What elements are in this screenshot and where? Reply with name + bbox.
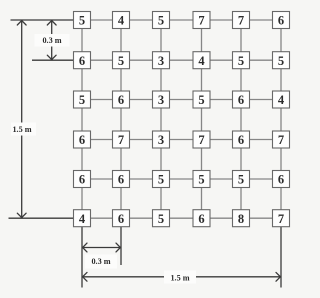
- node r5c2 value 6: [113, 171, 130, 188]
- node r3c4 value 5: [193, 91, 210, 108]
- node r2c4 value 4: [193, 52, 210, 69]
- dimension arrow 1.5 m horizontal bottom: [83, 272, 281, 281]
- wire row 4: [82, 139, 281, 141]
- node r4c4 value 7: [193, 131, 210, 148]
- extension line row 2 left: [32, 59, 82, 61]
- label 0.3 m bottom: [85, 255, 117, 269]
- svg-text:7: 7: [238, 14, 244, 28]
- wire row 6: [82, 217, 281, 219]
- svg-text:5: 5: [158, 14, 164, 28]
- node r1c3 value 5: [153, 12, 170, 29]
- label 1.5 m bottom: [164, 271, 196, 284]
- svg-text:6: 6: [238, 133, 244, 147]
- node r4c3 value 3: [153, 131, 170, 148]
- node r5c6 value 6: [273, 171, 290, 188]
- dimension arrow 1.5 m vertical left: [17, 21, 26, 218]
- wire column 4: [201, 20, 203, 218]
- svg-text:5: 5: [238, 173, 244, 187]
- node r6c4 value 6: [193, 210, 210, 227]
- node r3c1 value 5: [74, 91, 91, 108]
- svg-text:5: 5: [278, 54, 284, 68]
- node r2c2 value 5: [113, 52, 130, 69]
- wire column 2: [120, 20, 122, 218]
- node r4c2 value 7: [113, 131, 130, 148]
- extension line column 1 bottom: [81, 227, 83, 288]
- svg-text:6: 6: [198, 212, 204, 226]
- node r5c5 value 5: [233, 171, 250, 188]
- node r3c2 value 6: [113, 91, 130, 108]
- node r6c3 value 5: [153, 210, 170, 227]
- node r6c1 value 4: [74, 210, 91, 227]
- svg-text:8: 8: [238, 212, 244, 226]
- label 0.3 m top-left: [35, 34, 70, 47]
- svg-text:6: 6: [79, 173, 85, 187]
- svg-text:5: 5: [158, 173, 164, 187]
- svg-text:6: 6: [79, 54, 85, 68]
- svg-text:5: 5: [238, 54, 244, 68]
- svg-text:5: 5: [158, 212, 164, 226]
- wire row 1: [82, 19, 281, 21]
- svg-text:1.5 m: 1.5 m: [12, 125, 31, 134]
- node r4c5 value 6: [233, 131, 250, 148]
- svg-text:0.3 m: 0.3 m: [91, 257, 110, 266]
- svg-text:4: 4: [118, 14, 125, 28]
- label 1.5 m left: [11, 123, 36, 136]
- node r3c6 value 4: [273, 91, 290, 108]
- svg-text:3: 3: [158, 133, 164, 147]
- svg-text:7: 7: [278, 133, 284, 147]
- node r2c6 value 5: [273, 52, 290, 69]
- svg-text:7: 7: [198, 14, 204, 28]
- svg-text:6: 6: [118, 173, 124, 187]
- extension line column 6 bottom: [280, 227, 282, 288]
- svg-text:6: 6: [278, 14, 284, 28]
- svg-text:6: 6: [278, 173, 284, 187]
- svg-text:1.5 m: 1.5 m: [170, 273, 189, 282]
- extension line row 6 left: [9, 217, 83, 219]
- node r3c3 value 3: [153, 91, 170, 108]
- svg-text:5: 5: [198, 93, 204, 107]
- node r6c2 value 6: [113, 210, 130, 227]
- svg-text:6: 6: [118, 212, 124, 226]
- svg-text:3: 3: [158, 93, 164, 107]
- svg-text:4: 4: [198, 54, 205, 68]
- node r3c5 value 6: [233, 91, 250, 108]
- node r2c1 value 6: [74, 52, 91, 69]
- node r6c5 value 8: [233, 210, 250, 227]
- node r1c5 value 7: [233, 12, 250, 29]
- dimension arrow 0.3 m vertical top-left: [47, 21, 56, 60]
- node r5c4 value 5: [193, 171, 210, 188]
- node r5c1 value 6: [74, 171, 91, 188]
- node r1c2 value 4: [113, 12, 130, 29]
- svg-text:7: 7: [118, 133, 124, 147]
- svg-text:4: 4: [79, 212, 86, 226]
- wire column 3: [160, 20, 162, 218]
- node r2c5 value 5: [233, 52, 250, 69]
- svg-text:6: 6: [118, 93, 124, 107]
- wire column 6: [280, 20, 282, 218]
- svg-text:4: 4: [278, 93, 285, 107]
- svg-text:5: 5: [118, 54, 124, 68]
- wire column 1: [81, 20, 83, 218]
- svg-text:6: 6: [79, 133, 85, 147]
- wire row 2: [82, 59, 281, 61]
- node r1c6 value 6: [273, 12, 290, 29]
- wire row 5: [82, 178, 281, 180]
- svg-text:6: 6: [238, 93, 244, 107]
- node r5c3 value 5: [153, 171, 170, 188]
- node r1c4 value 7: [193, 12, 210, 29]
- svg-text:0.3 m: 0.3 m: [42, 36, 61, 45]
- dimension arrow 0.3 m horizontal bottom: [83, 243, 121, 252]
- extension line column 2 bottom: [120, 227, 122, 265]
- node r4c1 value 6: [74, 131, 91, 148]
- node r1c1 value 5: [74, 12, 91, 29]
- node r4c6 value 7: [273, 131, 290, 148]
- svg-text:7: 7: [278, 212, 284, 226]
- node r2c3 value 3: [153, 52, 170, 69]
- svg-text:5: 5: [79, 14, 85, 28]
- svg-text:3: 3: [158, 54, 164, 68]
- extension line row 1 left: [11, 19, 83, 21]
- node r6c6 value 7: [273, 210, 290, 227]
- svg-text:7: 7: [198, 133, 204, 147]
- wire column 5: [240, 20, 242, 218]
- svg-text:5: 5: [79, 93, 85, 107]
- svg-text:5: 5: [198, 173, 204, 187]
- wire row 3: [82, 99, 281, 101]
